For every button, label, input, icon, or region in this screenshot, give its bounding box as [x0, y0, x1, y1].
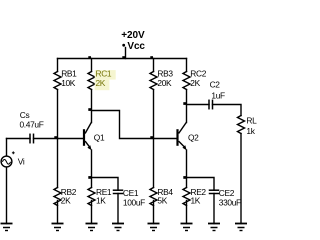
resistor RL	[238, 116, 245, 134]
wire Vi to ground	[6, 167, 8, 223]
transistor Q1	[83, 122, 92, 150]
wire emitter node to CE2	[187, 178, 215, 191]
wire Cs to node A	[34, 138, 58, 140]
svg-text:Vcc: Vcc	[127, 41, 145, 52]
svg-text:330uF: 330uF	[219, 198, 241, 208]
wire RB2	[57, 139, 59, 188]
svg-text:1k: 1k	[246, 126, 255, 136]
resistor RC1	[88, 72, 95, 90]
svg-text:5K: 5K	[157, 196, 167, 206]
resistor RE2	[183, 188, 190, 206]
plus mark of Vi	[12, 151, 15, 154]
svg-text:20K: 20K	[157, 78, 172, 88]
capacitor C2 plate 2	[212, 100, 214, 108]
resistor RB2	[54, 188, 61, 206]
ground (CE2)	[208, 224, 220, 231]
ground (Vi)	[1, 224, 13, 231]
wire CE2 to ground	[213, 194, 215, 224]
resistor RC2	[183, 72, 190, 90]
capacitor CE1 plate 1	[114, 189, 123, 191]
resistor RB3	[150, 72, 157, 90]
wire C2 left	[187, 104, 210, 106]
svg-text:Cs: Cs	[20, 110, 30, 120]
node Q2 emitter-RE2-CE2	[183, 176, 186, 179]
svg-text:2K: 2K	[61, 196, 71, 206]
node bus-Vcc stub	[122, 56, 125, 59]
svg-text:0.47uF: 0.47uF	[20, 119, 44, 129]
node Q1 collector tap	[88, 108, 91, 111]
node Vcc terminal dot	[122, 44, 125, 47]
svg-text:C2: C2	[210, 79, 221, 89]
node A input-RB1-RB2-base	[54, 136, 57, 139]
resistor RB4	[150, 188, 157, 206]
wire RB1 top	[57, 59, 59, 72]
capacitor Cs plate 2	[33, 134, 35, 142]
wire RE2 to ground	[186, 201, 188, 224]
wire emitter node to CE1	[92, 178, 119, 191]
wire input vertical	[6, 139, 8, 156]
ground (CE1)	[112, 224, 124, 231]
ground (RB4)	[148, 224, 160, 231]
wire Q2 emitter down	[186, 150, 188, 178]
svg-text:Q1: Q1	[94, 132, 105, 142]
wire Vcc stub	[125, 48, 127, 59]
highlight RC1	[95, 70, 116, 80]
wire RL to ground	[240, 134, 242, 224]
svg-text:10K: 10K	[61, 78, 76, 88]
wire C2 to RL	[213, 105, 242, 116]
wire RB3 bottom	[153, 90, 155, 139]
wire RC1 top	[91, 59, 93, 72]
svg-text:100uF: 100uF	[123, 198, 145, 208]
wire RB4	[153, 139, 155, 188]
wire base Q1	[58, 138, 84, 140]
wire CE1 to ground	[117, 194, 119, 224]
wire RB2 to ground	[57, 201, 59, 224]
ground (RB2)	[52, 224, 64, 231]
capacitor CE1 plate 2	[114, 193, 123, 195]
node Q1 emitter-RE1-CE1	[88, 176, 91, 179]
wire RC2 bottom to Q2 collector	[186, 90, 188, 123]
ground (RE1)	[86, 224, 98, 231]
source Vi	[1, 156, 12, 167]
capacitor C2 plate 1	[208, 100, 210, 108]
svg-text:1K: 1K	[191, 196, 201, 206]
wire RB1 bottom	[57, 90, 59, 139]
capacitor CE2 plate 2	[210, 193, 219, 195]
svg-text:Vi: Vi	[18, 156, 25, 166]
wire interstage coupling	[92, 111, 177, 139]
wire Vcc bus	[58, 58, 187, 60]
wire RE2 top	[186, 178, 188, 188]
wire RE1 to ground	[91, 201, 93, 224]
wire RC1 bottom to Q1 collector	[91, 90, 93, 123]
wire RB3 top	[153, 59, 155, 72]
ground (RL)	[235, 224, 247, 231]
svg-text:RL: RL	[246, 115, 257, 125]
svg-text:+20V: +20V	[121, 30, 145, 41]
node Q2 collector tap	[183, 102, 186, 105]
resistor RB1	[54, 72, 61, 90]
wire RC2 top	[186, 59, 188, 72]
capacitor CE2 plate 1	[210, 189, 219, 191]
ground (RE2)	[181, 224, 193, 231]
capacitor Cs plate 1	[29, 134, 31, 142]
svg-text:2K: 2K	[96, 78, 106, 88]
node bus-RC1	[88, 56, 91, 59]
svg-text:1uF: 1uF	[211, 90, 225, 100]
resistor RE1	[88, 188, 95, 206]
wire Q1 emitter down	[91, 150, 93, 178]
wire RB4 to ground	[153, 201, 155, 224]
node RB3-RB4-base Q2	[150, 136, 153, 139]
svg-text:1K: 1K	[96, 196, 106, 206]
node bus-RB3	[150, 56, 153, 59]
transistor Q2	[176, 122, 186, 150]
svg-text:2K: 2K	[190, 78, 200, 88]
svg-text:Q2: Q2	[188, 132, 199, 142]
wire input horizontal to Cs	[7, 138, 31, 140]
wire RE1 top	[91, 178, 93, 188]
